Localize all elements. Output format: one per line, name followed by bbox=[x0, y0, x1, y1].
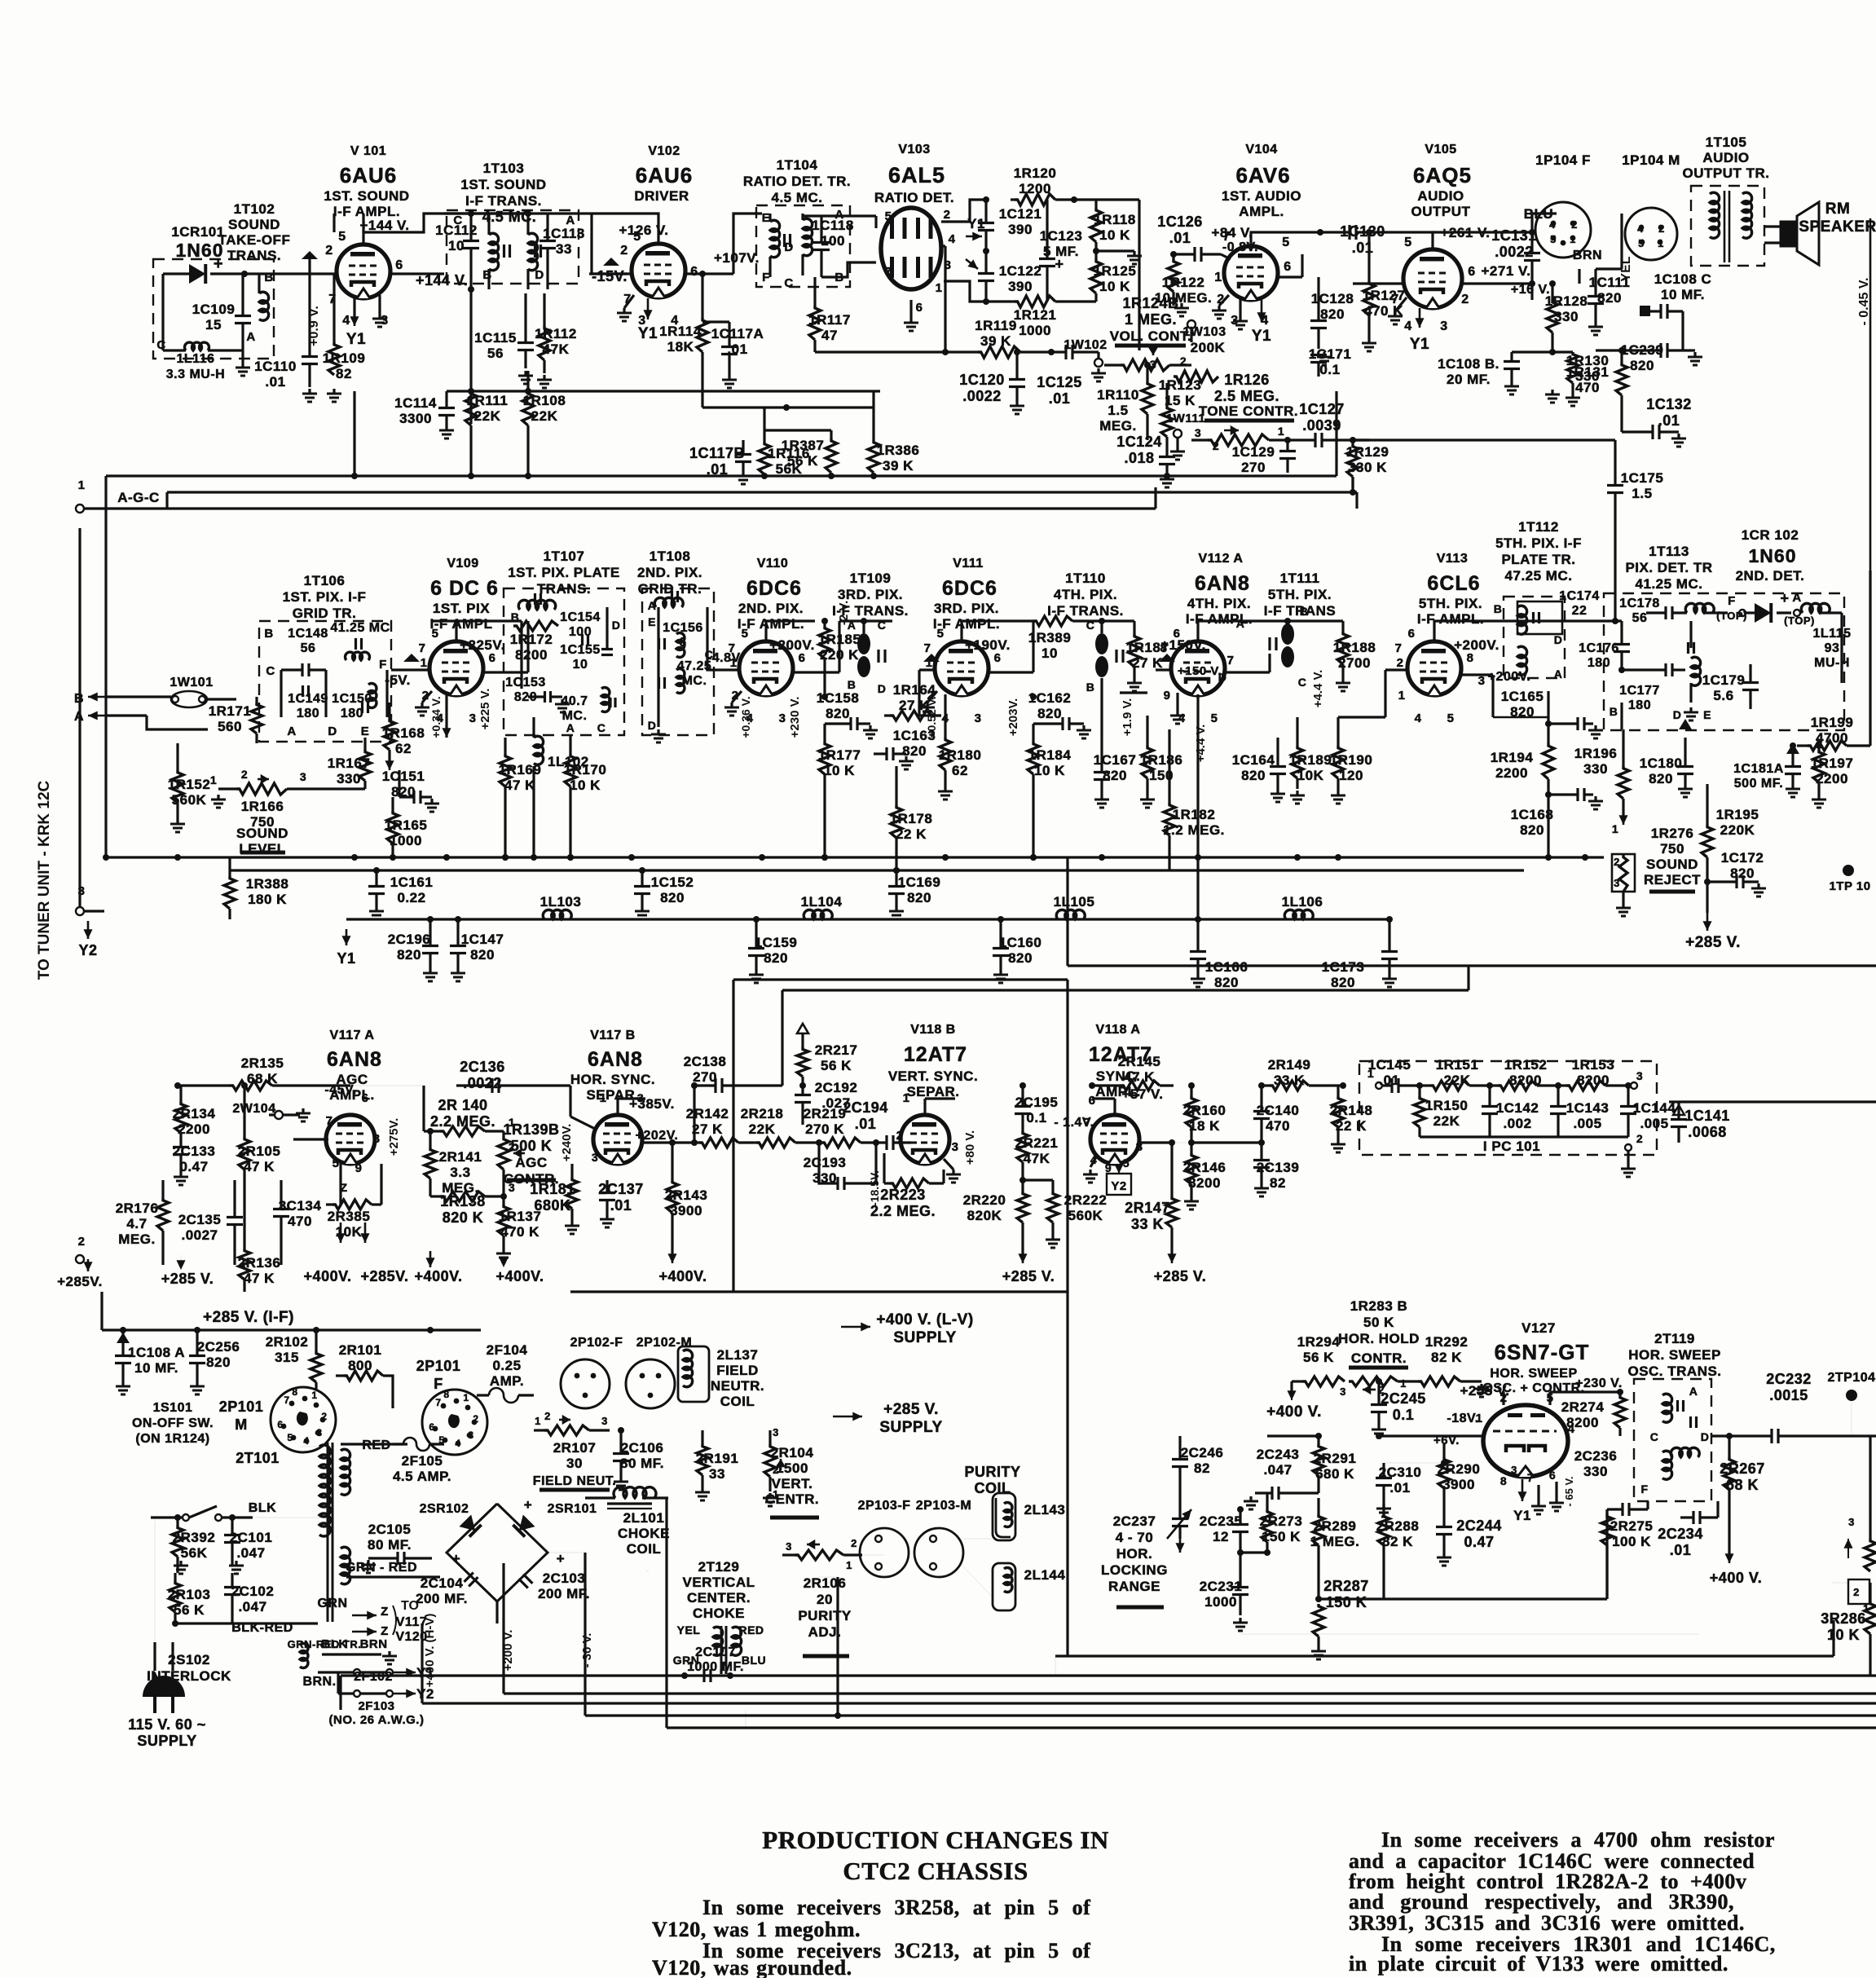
tube V113 label bbox=[1417, 552, 1499, 653]
svg-text:1P104 M: 1P104 M bbox=[1622, 152, 1680, 168]
svg-text:2: 2 bbox=[473, 1413, 478, 1425]
socket 2P103F bbox=[858, 1499, 911, 1577]
inductor 1L106 bbox=[1282, 894, 1323, 919]
svg-text:5TH. PIX.: 5TH. PIX. bbox=[1419, 596, 1482, 611]
capacitor 1C108B bbox=[1438, 352, 1552, 394]
svg-text:1: 1 bbox=[846, 1559, 852, 1571]
capacitor 1C109 bbox=[192, 274, 251, 350]
wire V112A cath bbox=[1196, 694, 1199, 925]
label Y1 V127 bbox=[1513, 1479, 1531, 1523]
resistor 1R185 bbox=[818, 618, 861, 697]
svg-text:CTC2 CHASSIS: CTC2 CHASSIS bbox=[843, 1857, 1028, 1885]
svg-text:1R166: 1R166 bbox=[241, 799, 284, 814]
svg-text:1: 1 bbox=[78, 478, 86, 492]
paragraph left line4 bbox=[652, 1956, 852, 1978]
svg-text:6: 6 bbox=[1089, 1094, 1096, 1108]
label GRN-RED TR bbox=[288, 1561, 440, 1650]
svg-text:1C126: 1C126 bbox=[1157, 214, 1203, 230]
capacitor 2C136 bbox=[456, 1059, 570, 1093]
pin numbers V117B bbox=[592, 1091, 678, 1164]
svg-text:1W102: 1W102 bbox=[1064, 338, 1107, 352]
svg-text:CONTR.: CONTR. bbox=[1351, 1350, 1407, 1366]
svg-text:1000: 1000 bbox=[1019, 323, 1051, 338]
svg-text:820: 820 bbox=[1649, 771, 1673, 786]
svg-text:SPEAKER: SPEAKER bbox=[1799, 218, 1876, 236]
capacitor 1C176 bbox=[1579, 621, 1630, 670]
svg-text:1C109: 1C109 bbox=[192, 302, 236, 317]
svg-text:18K: 18K bbox=[667, 339, 694, 355]
svg-text:2R275: 2R275 bbox=[1610, 1518, 1654, 1534]
label +4.4V V113 bbox=[1311, 670, 1325, 708]
wire V117B out bbox=[642, 1141, 694, 1143]
svg-text:+0.52 V.: +0.52 V. bbox=[925, 696, 938, 738]
svg-text:+: + bbox=[452, 1551, 460, 1566]
pot 1W103 200K bbox=[1150, 340, 1226, 382]
wire 1P104 to YEL bbox=[1596, 214, 1622, 269]
svg-text:1C155: 1C155 bbox=[560, 643, 601, 657]
svg-text:2: 2 bbox=[1658, 222, 1665, 235]
svg-text:SOUND: SOUND bbox=[228, 217, 280, 232]
svg-text:2R135: 2R135 bbox=[241, 1055, 284, 1071]
svg-text:TONE CONTR.: TONE CONTR. bbox=[1199, 403, 1298, 419]
svg-text:1R123: 1R123 bbox=[1159, 377, 1202, 393]
svg-text:3RD. PIX.: 3RD. PIX. bbox=[838, 587, 903, 602]
wire purity bbox=[862, 1539, 993, 1597]
label -18.5V bbox=[868, 1170, 881, 1206]
svg-text:5TH. PIX. I-F: 5TH. PIX. I-F bbox=[1495, 535, 1582, 551]
pin numbers V111 bbox=[924, 627, 1002, 725]
svg-text:1L106: 1L106 bbox=[1282, 894, 1323, 910]
svg-text:+400 V.: +400 V. bbox=[1710, 1570, 1762, 1586]
svg-text:+230 V.: +230 V. bbox=[1575, 1377, 1623, 1390]
pin numbers V104 bbox=[1214, 230, 1291, 328]
svg-text:1C143: 1C143 bbox=[1566, 1100, 1610, 1116]
capacitor 1C117B bbox=[689, 440, 751, 484]
resistor 2R217 bbox=[797, 1033, 857, 1089]
transformer 1T104 box bbox=[756, 205, 850, 290]
label Y1 V102 bbox=[638, 298, 658, 342]
capacitor 1C152 bbox=[634, 867, 694, 919]
label RED bbox=[341, 1438, 407, 1452]
svg-text:3: 3 bbox=[1150, 358, 1156, 371]
svg-text:1: 1 bbox=[1398, 689, 1406, 703]
svg-text:2: 2 bbox=[896, 1129, 904, 1143]
pin numbers V109 bbox=[419, 627, 496, 725]
svg-text:1R172: 1R172 bbox=[510, 632, 553, 647]
svg-text:3: 3 bbox=[1636, 1069, 1643, 1082]
ground 1C110 1R109 bbox=[302, 389, 341, 402]
terminal 1W101 bbox=[170, 676, 213, 707]
svg-text:1C164: 1C164 bbox=[1232, 752, 1275, 768]
svg-text:8: 8 bbox=[373, 1132, 381, 1146]
svg-text:D: D bbox=[1673, 708, 1682, 721]
svg-text:6AQ5: 6AQ5 bbox=[1413, 163, 1472, 187]
svg-text:40.7: 40.7 bbox=[561, 694, 588, 708]
socket 1P104M bbox=[1625, 208, 1677, 260]
svg-text:1R151: 1R151 bbox=[1436, 1057, 1479, 1073]
svg-text:MC.: MC. bbox=[562, 709, 588, 723]
ground V111 bbox=[920, 691, 937, 716]
svg-text:0.1: 0.1 bbox=[1393, 1407, 1415, 1423]
svg-text:1: 1 bbox=[936, 281, 943, 295]
pot 1R139B bbox=[498, 1116, 560, 1196]
heading ctc2 chassis bbox=[843, 1857, 1028, 1885]
svg-text:OSC. TRANS.: OSC. TRANS. bbox=[1627, 1363, 1721, 1379]
svg-text:12AT7: 12AT7 bbox=[1089, 1043, 1152, 1066]
svg-text:6: 6 bbox=[1549, 1469, 1556, 1482]
svg-text:1C177: 1C177 bbox=[1619, 684, 1660, 698]
svg-text:.01: .01 bbox=[1670, 1542, 1692, 1558]
label Y2 box bbox=[1107, 1164, 1131, 1195]
capacitor 1C144 bbox=[1620, 1082, 1676, 1137]
svg-text:in plate circuit of V133 were: in plate circuit of V133 were omitted. bbox=[1349, 1952, 1728, 1976]
svg-text:1T112: 1T112 bbox=[1518, 519, 1559, 535]
svg-text:1: 1 bbox=[730, 656, 738, 670]
svg-text:2: 2 bbox=[1853, 1586, 1860, 1598]
svg-text:1ST. PIX. PLATE: 1ST. PIX. PLATE bbox=[508, 565, 620, 580]
svg-text:1C178: 1C178 bbox=[1619, 597, 1660, 610]
svg-text:1C153: 1C153 bbox=[505, 676, 546, 689]
svg-text:1W101: 1W101 bbox=[170, 676, 213, 689]
svg-text:82: 82 bbox=[1194, 1460, 1210, 1476]
svg-text:3RD. PIX.: 3RD. PIX. bbox=[934, 601, 999, 616]
resistor 1R168 bbox=[382, 703, 425, 770]
svg-text:820: 820 bbox=[1520, 822, 1544, 838]
svg-text:PURITY: PURITY bbox=[964, 1464, 1020, 1480]
svg-text:1C169: 1C169 bbox=[898, 874, 941, 890]
capacitor 1C150 bbox=[332, 683, 377, 720]
svg-text:COIL: COIL bbox=[627, 1541, 662, 1557]
svg-text:820: 820 bbox=[1241, 768, 1266, 783]
svg-text:1C180: 1C180 bbox=[1640, 756, 1683, 771]
label +230V vert bbox=[788, 697, 802, 738]
svg-text:47 K: 47 K bbox=[244, 1271, 275, 1286]
diode 2SR102 bbox=[420, 1502, 482, 1537]
svg-text:1ST. SOUND: 1ST. SOUND bbox=[324, 188, 409, 204]
svg-text:330: 330 bbox=[337, 771, 361, 786]
svg-text:5: 5 bbox=[937, 627, 945, 641]
svg-text:82: 82 bbox=[336, 366, 352, 381]
svg-text:3: 3 bbox=[601, 1415, 608, 1427]
svg-text:820: 820 bbox=[1214, 975, 1239, 990]
resistor 1R122 bbox=[1155, 251, 1213, 316]
capacitor 2C310 bbox=[1376, 1463, 1421, 1517]
transformer 2T129 bbox=[673, 1623, 766, 1669]
tube V103 label bbox=[874, 143, 954, 205]
tube V111 label bbox=[933, 557, 1011, 653]
pin numbers V110 bbox=[729, 627, 806, 725]
svg-text:820: 820 bbox=[1037, 706, 1062, 721]
svg-text:1R387: 1R387 bbox=[782, 438, 825, 453]
label +275V vert bbox=[387, 1118, 401, 1156]
tube V104 bbox=[1224, 246, 1278, 300]
svg-text:V105: V105 bbox=[1425, 143, 1456, 156]
svg-text:4.5 MC.: 4.5 MC. bbox=[771, 190, 822, 205]
svg-text:50 K: 50 K bbox=[1363, 1315, 1394, 1330]
resistor 2R135 bbox=[174, 1055, 350, 1090]
resistor 2R385 bbox=[326, 1181, 381, 1240]
svg-text:10: 10 bbox=[573, 658, 588, 672]
svg-text:315: 315 bbox=[275, 1350, 299, 1365]
coil 1T102 secondary bbox=[259, 274, 269, 320]
svg-text:56 K: 56 K bbox=[1303, 1350, 1334, 1365]
svg-text:-5V.: -5V. bbox=[385, 672, 411, 688]
tube V104 label bbox=[1211, 143, 1301, 240]
svg-text:6: 6 bbox=[994, 651, 1002, 665]
svg-text:3: 3 bbox=[1614, 877, 1620, 889]
interlock 2S102 bbox=[147, 1642, 231, 1691]
label F TOP bbox=[1716, 594, 1747, 622]
svg-text:20 MF.: 20 MF. bbox=[1447, 372, 1491, 387]
svg-text:80 MF.: 80 MF. bbox=[620, 1456, 664, 1471]
svg-text:-45V.: -45V. bbox=[324, 1083, 356, 1097]
svg-text:47 K: 47 K bbox=[504, 778, 535, 793]
tube V111 bbox=[935, 641, 989, 695]
label Y1 V104 bbox=[1252, 300, 1271, 345]
svg-text:BRN.: BRN. bbox=[302, 1675, 336, 1689]
svg-text:A: A bbox=[1792, 591, 1801, 605]
svg-text:15: 15 bbox=[205, 317, 222, 333]
svg-text:6AN8: 6AN8 bbox=[588, 1048, 643, 1071]
svg-text:200 MF.: 200 MF. bbox=[538, 1586, 590, 1601]
svg-text:1R152: 1R152 bbox=[1504, 1057, 1548, 1073]
svg-text:33: 33 bbox=[556, 241, 572, 257]
wire V118B grid bbox=[896, 1141, 903, 1143]
svg-text:E: E bbox=[361, 725, 370, 738]
svg-text:56: 56 bbox=[301, 641, 316, 655]
capacitor 1C114 bbox=[394, 391, 455, 438]
svg-text:0.22: 0.22 bbox=[397, 890, 425, 905]
svg-text:D: D bbox=[1554, 633, 1563, 646]
label -0.45V right bbox=[1857, 277, 1871, 325]
resistor 1R388 bbox=[224, 870, 288, 919]
svg-text:.002: .002 bbox=[1503, 1116, 1531, 1131]
svg-text:1C122: 1C122 bbox=[999, 263, 1042, 279]
label A TOP bbox=[1784, 591, 1815, 627]
capacitor 1C179 bbox=[1702, 664, 1759, 709]
fuse 2F105 bbox=[393, 1438, 451, 1484]
transformer 1T105 coils bbox=[1710, 191, 1752, 262]
svg-text:0.1: 0.1 bbox=[1026, 1110, 1046, 1126]
svg-text:2T101: 2T101 bbox=[236, 1450, 280, 1466]
svg-text:6CL6: 6CL6 bbox=[1427, 572, 1480, 595]
svg-text:.0068: .0068 bbox=[1688, 1124, 1727, 1140]
resistor 2R218 bbox=[741, 1106, 822, 1148]
label BLU bbox=[1524, 206, 1557, 232]
svg-text:93: 93 bbox=[1825, 641, 1840, 655]
resistor 1R195 bbox=[1702, 784, 1759, 913]
label -2V bbox=[837, 601, 851, 625]
svg-text:1R120: 1R120 bbox=[1014, 165, 1057, 181]
svg-text:Y1: Y1 bbox=[1513, 1508, 1531, 1523]
svg-text:1ST. SOUND: 1ST. SOUND bbox=[460, 177, 546, 192]
svg-text:PIX. DET. TR: PIX. DET. TR bbox=[1625, 560, 1712, 575]
svg-text:1C110: 1C110 bbox=[254, 359, 297, 374]
svg-text:10: 10 bbox=[448, 238, 465, 253]
svg-text:Y1: Y1 bbox=[638, 325, 658, 342]
svg-text:1C142: 1C142 bbox=[1496, 1100, 1539, 1116]
label BRN bbox=[1573, 249, 1602, 284]
svg-text:10 MEG.: 10 MEG. bbox=[1155, 290, 1213, 306]
svg-text:2T129: 2T129 bbox=[698, 1559, 740, 1575]
resistor 1R386 bbox=[868, 407, 919, 476]
coil purity label bbox=[964, 1464, 1020, 1496]
wire tuner stub bbox=[84, 910, 104, 912]
wire V110 plate bbox=[766, 621, 815, 641]
svg-text:(TOP): (TOP) bbox=[1784, 615, 1815, 627]
svg-text:1C161: 1C161 bbox=[390, 874, 434, 890]
svg-text:2SR101: 2SR101 bbox=[548, 1502, 597, 1516]
svg-text:1L105: 1L105 bbox=[1054, 894, 1095, 910]
pot 1R124B volume bbox=[1104, 295, 1191, 371]
tube V101 6AU6 label bbox=[324, 144, 409, 233]
svg-text:6: 6 bbox=[1174, 627, 1181, 641]
svg-text:1: 1 bbox=[903, 1091, 910, 1105]
capacitor 1C128 bbox=[1310, 277, 1354, 349]
svg-text:1C172: 1C172 bbox=[1721, 850, 1764, 866]
svg-text:+0.34 V.: +0.34 V. bbox=[429, 696, 443, 738]
resistor 1R177 bbox=[818, 724, 861, 861]
transformer 1T106 label bbox=[283, 573, 367, 621]
svg-text:5: 5 bbox=[338, 230, 346, 244]
wire V102 out bbox=[685, 214, 762, 274]
wire V104 plate bbox=[1251, 232, 1320, 246]
svg-text:3: 3 bbox=[975, 711, 982, 725]
svg-text:+400V.: +400V. bbox=[304, 1268, 352, 1284]
svg-text:6AN8: 6AN8 bbox=[327, 1048, 382, 1071]
capacitor 2C193 bbox=[804, 1143, 876, 1190]
paragraph left line1 bbox=[702, 1896, 1090, 1919]
svg-text:10 K: 10 K bbox=[570, 778, 601, 793]
paragraph right line5 bbox=[1349, 1911, 1745, 1935]
svg-text:AUDIO: AUDIO bbox=[1702, 150, 1749, 165]
svg-text:.005: .005 bbox=[1573, 1116, 1601, 1131]
svg-text:820K: 820K bbox=[967, 1208, 1002, 1223]
svg-text:2P102-M: 2P102-M bbox=[636, 1336, 692, 1350]
svg-text:V117 A: V117 A bbox=[330, 1029, 375, 1042]
svg-text:F: F bbox=[1640, 1482, 1648, 1496]
resistor 1R137 bbox=[496, 1193, 541, 1262]
label +240V bbox=[560, 1124, 574, 1162]
svg-text:8200: 8200 bbox=[1566, 1415, 1599, 1430]
coil 1T103 secondary bbox=[528, 214, 538, 289]
svg-text:3: 3 bbox=[1511, 1464, 1517, 1476]
svg-text:1L102: 1L102 bbox=[548, 754, 589, 769]
label +0.9V bbox=[307, 306, 321, 346]
svg-text:2TP104: 2TP104 bbox=[1827, 1371, 1875, 1385]
coil det 1 bbox=[1685, 603, 1728, 613]
svg-text:10 MF.: 10 MF. bbox=[1661, 287, 1705, 302]
svg-text:115 V. 60 ~: 115 V. 60 ~ bbox=[128, 1716, 205, 1733]
label +285V right bbox=[1154, 1268, 1206, 1284]
svg-text:4TH. PIX.: 4TH. PIX. bbox=[1054, 587, 1117, 602]
transformer 1T108 label bbox=[637, 548, 702, 597]
inductor 2L101b bbox=[647, 1571, 650, 1571]
svg-text:2R141: 2R141 bbox=[439, 1149, 482, 1165]
svg-text:+271 V.: +271 V. bbox=[1481, 263, 1530, 279]
paragraph right line2 bbox=[1349, 1849, 1755, 1873]
wire to V102 bbox=[592, 244, 628, 274]
diode 2SR101 bbox=[513, 1502, 597, 1537]
resistor 1R186 bbox=[1140, 729, 1183, 808]
svg-text:B: B bbox=[1086, 681, 1095, 694]
wire V103 plate2 bbox=[941, 200, 986, 222]
svg-text:30: 30 bbox=[566, 1456, 583, 1471]
svg-text:Y2: Y2 bbox=[416, 1686, 434, 1702]
capacitor 2C135 bbox=[178, 1180, 243, 1265]
svg-text:1000 MF.: 1000 MF. bbox=[687, 1660, 744, 1674]
resistor 2R290 bbox=[1384, 1434, 1480, 1509]
svg-text:NEUTR.: NEUTR. bbox=[711, 1378, 764, 1394]
svg-text:820: 820 bbox=[470, 947, 495, 963]
svg-text:1: 1 bbox=[210, 773, 217, 786]
svg-text:A: A bbox=[287, 725, 296, 738]
svg-text:20: 20 bbox=[817, 1592, 833, 1607]
svg-text:2: 2 bbox=[1180, 355, 1187, 368]
wire V117A grid bbox=[293, 1138, 328, 1140]
svg-text:1L103: 1L103 bbox=[540, 894, 582, 910]
svg-text:-0.8V.: -0.8V. bbox=[1222, 240, 1258, 254]
svg-text:1C118: 1C118 bbox=[812, 218, 854, 233]
svg-text:+: + bbox=[524, 1497, 532, 1513]
svg-text:GRN: GRN bbox=[317, 1597, 347, 1610]
svg-text:I-F TRANS.: I-F TRANS. bbox=[1047, 603, 1124, 619]
svg-text:.01: .01 bbox=[855, 1116, 877, 1132]
ground V104 bbox=[1212, 295, 1248, 329]
svg-text:+150 V.: +150 V. bbox=[1178, 664, 1222, 678]
svg-text:-15V.: -15V. bbox=[592, 268, 628, 284]
transformer 2T129 label bbox=[683, 1559, 755, 1621]
wire V112A plate bbox=[1198, 617, 1247, 641]
capacitor 1C164 bbox=[1232, 738, 1286, 802]
wire 1R182 1R178 join bbox=[896, 857, 897, 870]
svg-text:2: 2 bbox=[851, 1537, 857, 1549]
node 1TP10 bbox=[1829, 865, 1870, 893]
svg-text:6: 6 bbox=[489, 651, 496, 665]
capacitor 1C110 bbox=[254, 274, 318, 390]
svg-text:680K: 680K bbox=[534, 1197, 570, 1214]
svg-text:3: 3 bbox=[1440, 319, 1447, 333]
svg-text:SUPPLY: SUPPLY bbox=[137, 1733, 196, 1749]
svg-text:2P103-F: 2P103-F bbox=[858, 1499, 911, 1513]
svg-text:2C137: 2C137 bbox=[598, 1181, 644, 1197]
svg-text:1C179: 1C179 bbox=[1702, 672, 1746, 688]
svg-text:1R121: 1R121 bbox=[1014, 307, 1057, 323]
wire speaker bbox=[1764, 227, 1781, 243]
plug 115V bbox=[128, 1676, 205, 1749]
svg-text:8: 8 bbox=[1467, 651, 1474, 665]
wire 1310 frame bbox=[1067, 1655, 1068, 1657]
svg-text:3: 3 bbox=[592, 1151, 598, 1164]
capacitor 1C151 bbox=[382, 769, 439, 812]
svg-text:2R 140: 2R 140 bbox=[438, 1097, 487, 1113]
svg-text:+107V.: +107V. bbox=[714, 250, 760, 266]
svg-text:1L104: 1L104 bbox=[801, 894, 843, 910]
label Y1 V103 bbox=[966, 216, 985, 241]
svg-text:C: C bbox=[1086, 619, 1095, 632]
wire V109 plate bbox=[432, 621, 522, 641]
transformer 1T112 label bbox=[1495, 519, 1582, 584]
svg-text:1T110: 1T110 bbox=[1065, 570, 1106, 586]
svg-text:5: 5 bbox=[1550, 233, 1557, 245]
svg-text:6: 6 bbox=[429, 1421, 434, 1433]
svg-text:+4.4 V.: +4.4 V. bbox=[1311, 670, 1325, 708]
svg-text:BLK: BLK bbox=[249, 1501, 276, 1515]
svg-text:10 K: 10 K bbox=[1099, 227, 1130, 243]
capacitor 1C172 bbox=[1704, 850, 1766, 896]
resistor 1R389 bbox=[1011, 616, 1096, 661]
svg-text:+4.4 V.: +4.4 V. bbox=[1194, 725, 1208, 763]
